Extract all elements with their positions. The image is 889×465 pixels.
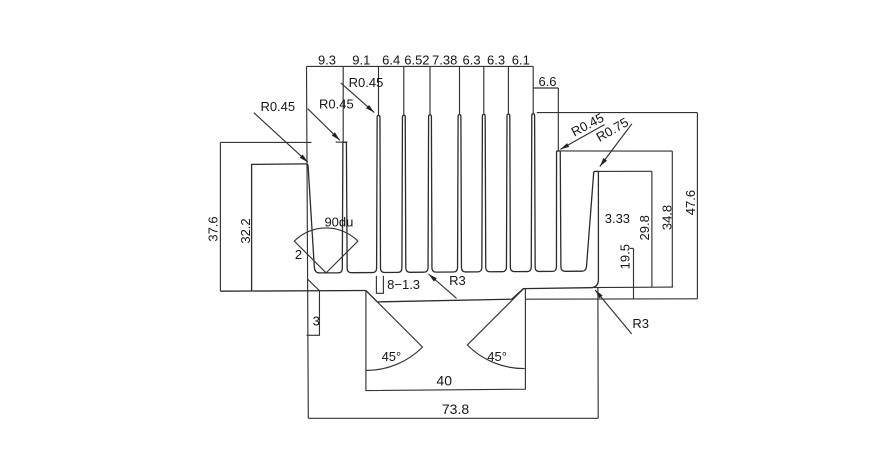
svg-text:3.33: 3.33	[605, 211, 630, 226]
svg-text:3: 3	[313, 314, 320, 329]
svg-text:6.1: 6.1	[512, 53, 530, 68]
svg-text:90du: 90du	[324, 215, 353, 230]
svg-text:32.2: 32.2	[238, 218, 253, 243]
svg-text:37.6: 37.6	[206, 216, 221, 241]
svg-text:6.4: 6.4	[382, 53, 400, 68]
svg-text:R0.45: R0.45	[319, 97, 354, 112]
svg-text:6.52: 6.52	[404, 53, 429, 68]
svg-text:45°: 45°	[382, 349, 402, 364]
svg-text:6.3: 6.3	[463, 53, 481, 68]
svg-text:9.1: 9.1	[352, 53, 370, 68]
svg-text:R0.45: R0.45	[349, 75, 384, 90]
svg-text:2: 2	[295, 247, 302, 262]
svg-text:9.3: 9.3	[318, 53, 336, 68]
svg-text:73.8: 73.8	[442, 401, 469, 417]
svg-text:7.38: 7.38	[432, 53, 457, 68]
svg-text:29.8: 29.8	[637, 215, 652, 240]
svg-text:47.6: 47.6	[683, 190, 698, 215]
svg-text:34.8: 34.8	[660, 205, 675, 230]
svg-text:45°: 45°	[487, 349, 507, 364]
svg-text:40: 40	[436, 372, 452, 388]
svg-text:R3: R3	[449, 273, 466, 288]
svg-text:R3: R3	[632, 316, 649, 331]
svg-text:6.6: 6.6	[538, 74, 556, 89]
svg-text:6.3: 6.3	[487, 53, 505, 68]
svg-text:R0.45: R0.45	[260, 99, 295, 114]
svg-text:19.5: 19.5	[618, 244, 633, 269]
svg-text:8−1.3: 8−1.3	[387, 277, 420, 292]
